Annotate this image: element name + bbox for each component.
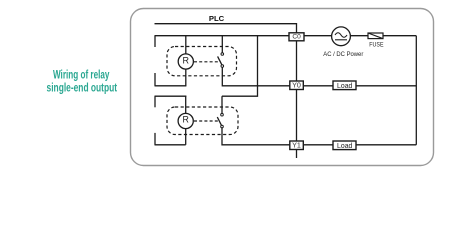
caption: Wiring of relay single-end output xyxy=(47,68,118,95)
wire: row B left segment xyxy=(155,85,187,87)
terminal C0 xyxy=(289,33,304,41)
svg-text:FUSE: FUSE xyxy=(369,41,384,48)
wire: Load L1 to right rail xyxy=(356,85,416,87)
svg-text:Y0: Y0 xyxy=(292,83,301,90)
wire: left rail stub 3 xyxy=(154,96,156,107)
svg-text:Load: Load xyxy=(337,81,352,90)
svg-text:PLC: PLC xyxy=(209,14,225,23)
wire: left rail stub 4 xyxy=(154,133,156,145)
actuation dashed link R2 to contact K2 xyxy=(194,120,219,122)
relay contact K2 xyxy=(217,113,223,127)
svg-text:Load: Load xyxy=(337,141,352,150)
wire: C0 drop to row B2 (feeds contact K2) xyxy=(222,36,258,96)
wire: contact K2 bottom lead to row C right xyxy=(222,128,290,145)
load L2 xyxy=(333,141,356,150)
svg-text:C0: C0 xyxy=(292,34,301,41)
svg-text:single-end output: single-end output xyxy=(47,80,118,94)
wire: fuse F1 to right supply rail xyxy=(383,35,416,37)
wire: row C left segment xyxy=(155,144,186,146)
wire: R2 coil top lead xyxy=(185,96,187,113)
wire: left rail stub 1 xyxy=(154,36,156,47)
wire: R1 coil top lead xyxy=(185,36,187,54)
wire: power source to fuse F1 xyxy=(350,35,368,37)
wire: contact K2 top lead xyxy=(221,96,223,113)
wire: R2 coil bottom lead xyxy=(185,129,187,145)
relay contact K1 xyxy=(218,53,224,68)
load L1 xyxy=(333,81,356,90)
svg-text:Y1: Y1 xyxy=(292,143,301,150)
wire: PLC top line to C0 terminal top xyxy=(155,24,297,33)
wire: C0 right to AC/DC power source xyxy=(304,35,332,37)
wire: C0 bottom to Y0 top xyxy=(296,41,298,81)
wire: left rail stub 2 xyxy=(154,73,156,86)
relay coil R1 xyxy=(178,54,193,69)
terminal Y0 xyxy=(290,81,304,90)
svg-text:R: R xyxy=(183,114,189,124)
wire: Load L2 to right rail xyxy=(356,144,416,146)
internal circuit dashed box 1 xyxy=(167,47,237,76)
PLC enclosure frame xyxy=(131,9,434,166)
AC/DC power source PS1 xyxy=(332,27,351,46)
wire: R1 coil bottom lead xyxy=(185,69,187,86)
wire: right supply rail xyxy=(415,36,417,145)
terminal Y1 xyxy=(290,141,304,150)
wire: row B2 left segment xyxy=(155,95,187,97)
actuation dashed link R1 to contact K1 xyxy=(194,61,219,63)
wire: Y1 to Load L2 xyxy=(303,144,333,146)
fuse F1 xyxy=(368,33,383,39)
svg-text:AC / DC Power: AC / DC Power xyxy=(323,51,364,58)
internal circuit dashed box 2 xyxy=(167,107,238,135)
relay coil R2 xyxy=(178,113,193,128)
wire: common rail row A to C0 left xyxy=(155,35,290,37)
wire: Y0 to Load L1 xyxy=(303,85,333,87)
wire: contact K1 top lead xyxy=(221,36,223,53)
svg-text:R: R xyxy=(183,56,190,66)
wire: Y0 bottom to Y1 top xyxy=(296,90,298,142)
wire: stub below Y1 xyxy=(296,150,298,158)
wire: contact K1 bottom lead to row B right xyxy=(222,67,290,86)
